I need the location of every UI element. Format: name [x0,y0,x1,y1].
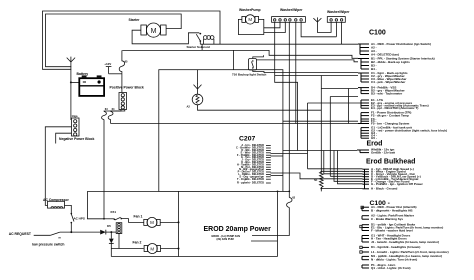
svg-text:B2 - dkblu - Back-up Lights: B2 - dkblu - Back-up Lights [371,60,410,64]
svg-text:WasherPump: WasherPump [239,8,261,12]
svg-text:AC HPS: AC HPS [74,217,85,221]
svg-text:Starter: Starter [129,18,141,22]
svg-text:Negative Power Block: Negative Power Block [59,137,95,141]
svg-text:K5: K5 [107,224,111,228]
svg-text:M: M [151,28,157,35]
svg-text:H - Black - Ground: H - Black - Ground [371,187,398,191]
svg-text:L1 - brnwht - Lights: Park/Tur: L1 - brnwht - Lights: Park/Turn (rh fron… [371,250,449,254]
svg-text:low pressure switch: low pressure switch [32,243,64,247]
svg-text:A2: A2 [187,105,191,109]
svg-text:K51: K51 [111,210,117,214]
svg-text:F - blkwht - washer fluid leve: F - blkwht - washer fluid level [371,228,413,232]
svg-text:D3 - wht - Tachometer: D3 - wht - Tachometer [371,92,403,96]
svg-text:14ga: 14ga [72,114,78,118]
svg-text:Fan 2: Fan 2 [133,241,142,245]
svg-text:C4 - pnk - Wiper/Washer: C4 - pnk - Wiper/Washer [371,80,406,84]
svg-text:(2b) FAN PUM: (2b) FAN PUM [217,237,234,241]
svg-text:K1 - ltgrnblk - headlights (hi: K1 - ltgrnblk - headlights (hi beam) [371,245,420,249]
svg-text:G2 - red - power distribution: G2 - red - power distribution (light swi… [371,129,447,133]
svg-text:A1 - RED - Power Distribution: A1 - RED - Power Distribution (Ign Switc… [371,42,431,46]
svg-text:B - dkgrnwht - Headlights HB: B - dkgrnwht - Headlights HB [371,209,413,213]
svg-text:N - dkblu - Lights: Turn (rh f: N - dkblu - Lights: Turn (rh front) [371,258,417,262]
svg-text:C207: C207 [239,136,255,143]
svg-text:AC REQUEST: AC REQUEST [9,232,32,236]
svg-text:Fan 1: Fan 1 [134,214,143,218]
svg-text:J1 - tanwht - headlights (hi b: J1 - tanwht - headlights (hi beam, lamp … [371,240,439,244]
svg-text:Washer/Wiper: Washer/Wiper [280,8,303,12]
svg-text:F2 - dk grn - Coolant Temp: F2 - dk grn - Coolant Temp [371,114,409,118]
svg-text:R - pplwht - DELETED: R - pplwht - DELETED [237,181,264,185]
svg-text:M: M [248,17,252,22]
svg-text:C - Brake Warning Sys: C - Brake Warning Sys [371,217,403,221]
svg-text:M: M [150,220,154,225]
svg-text:+12V: +12V [104,62,111,66]
svg-text:G - PnkWht - Ign - Ignition Of: G - PnkWht - Ign - Ignition Off Power [371,182,424,186]
svg-text:G5 -: G5 - [371,136,377,140]
svg-text:EROD 20amp Power: EROD 20amp Power [204,226,272,233]
svg-text:M: M [150,246,154,251]
svg-text:Starter Solenoid: Starter Solenoid [187,45,210,49]
svg-text:Washer/Wiper: Washer/Wiper [327,10,350,14]
svg-text:716 Backup light Switch: 716 Backup light Switch [232,73,267,77]
svg-text:E4 - ppl - DELETED (Alternator: E4 - ppl - DELETED (Alternator T) [371,106,418,110]
svg-text:GrnBlk - 12v batt: GrnBlk - 12v batt [371,150,395,154]
svg-text:Erod: Erod [367,141,383,148]
svg-text:Erod Bulkhead: Erod Bulkhead [366,159,415,166]
svg-text:Positive Power Block: Positive Power Block [110,85,144,89]
svg-text:C100: C100 [369,30,386,37]
svg-text:Battery: Battery [77,72,89,76]
svg-text:Q1 - Hrbd - Lights: (lh front): Q1 - Hrbd - Lights: (lh front) [371,266,411,270]
svg-text:T - OrgBlk - DELETED: T - OrgBlk - DELETED [237,177,264,181]
